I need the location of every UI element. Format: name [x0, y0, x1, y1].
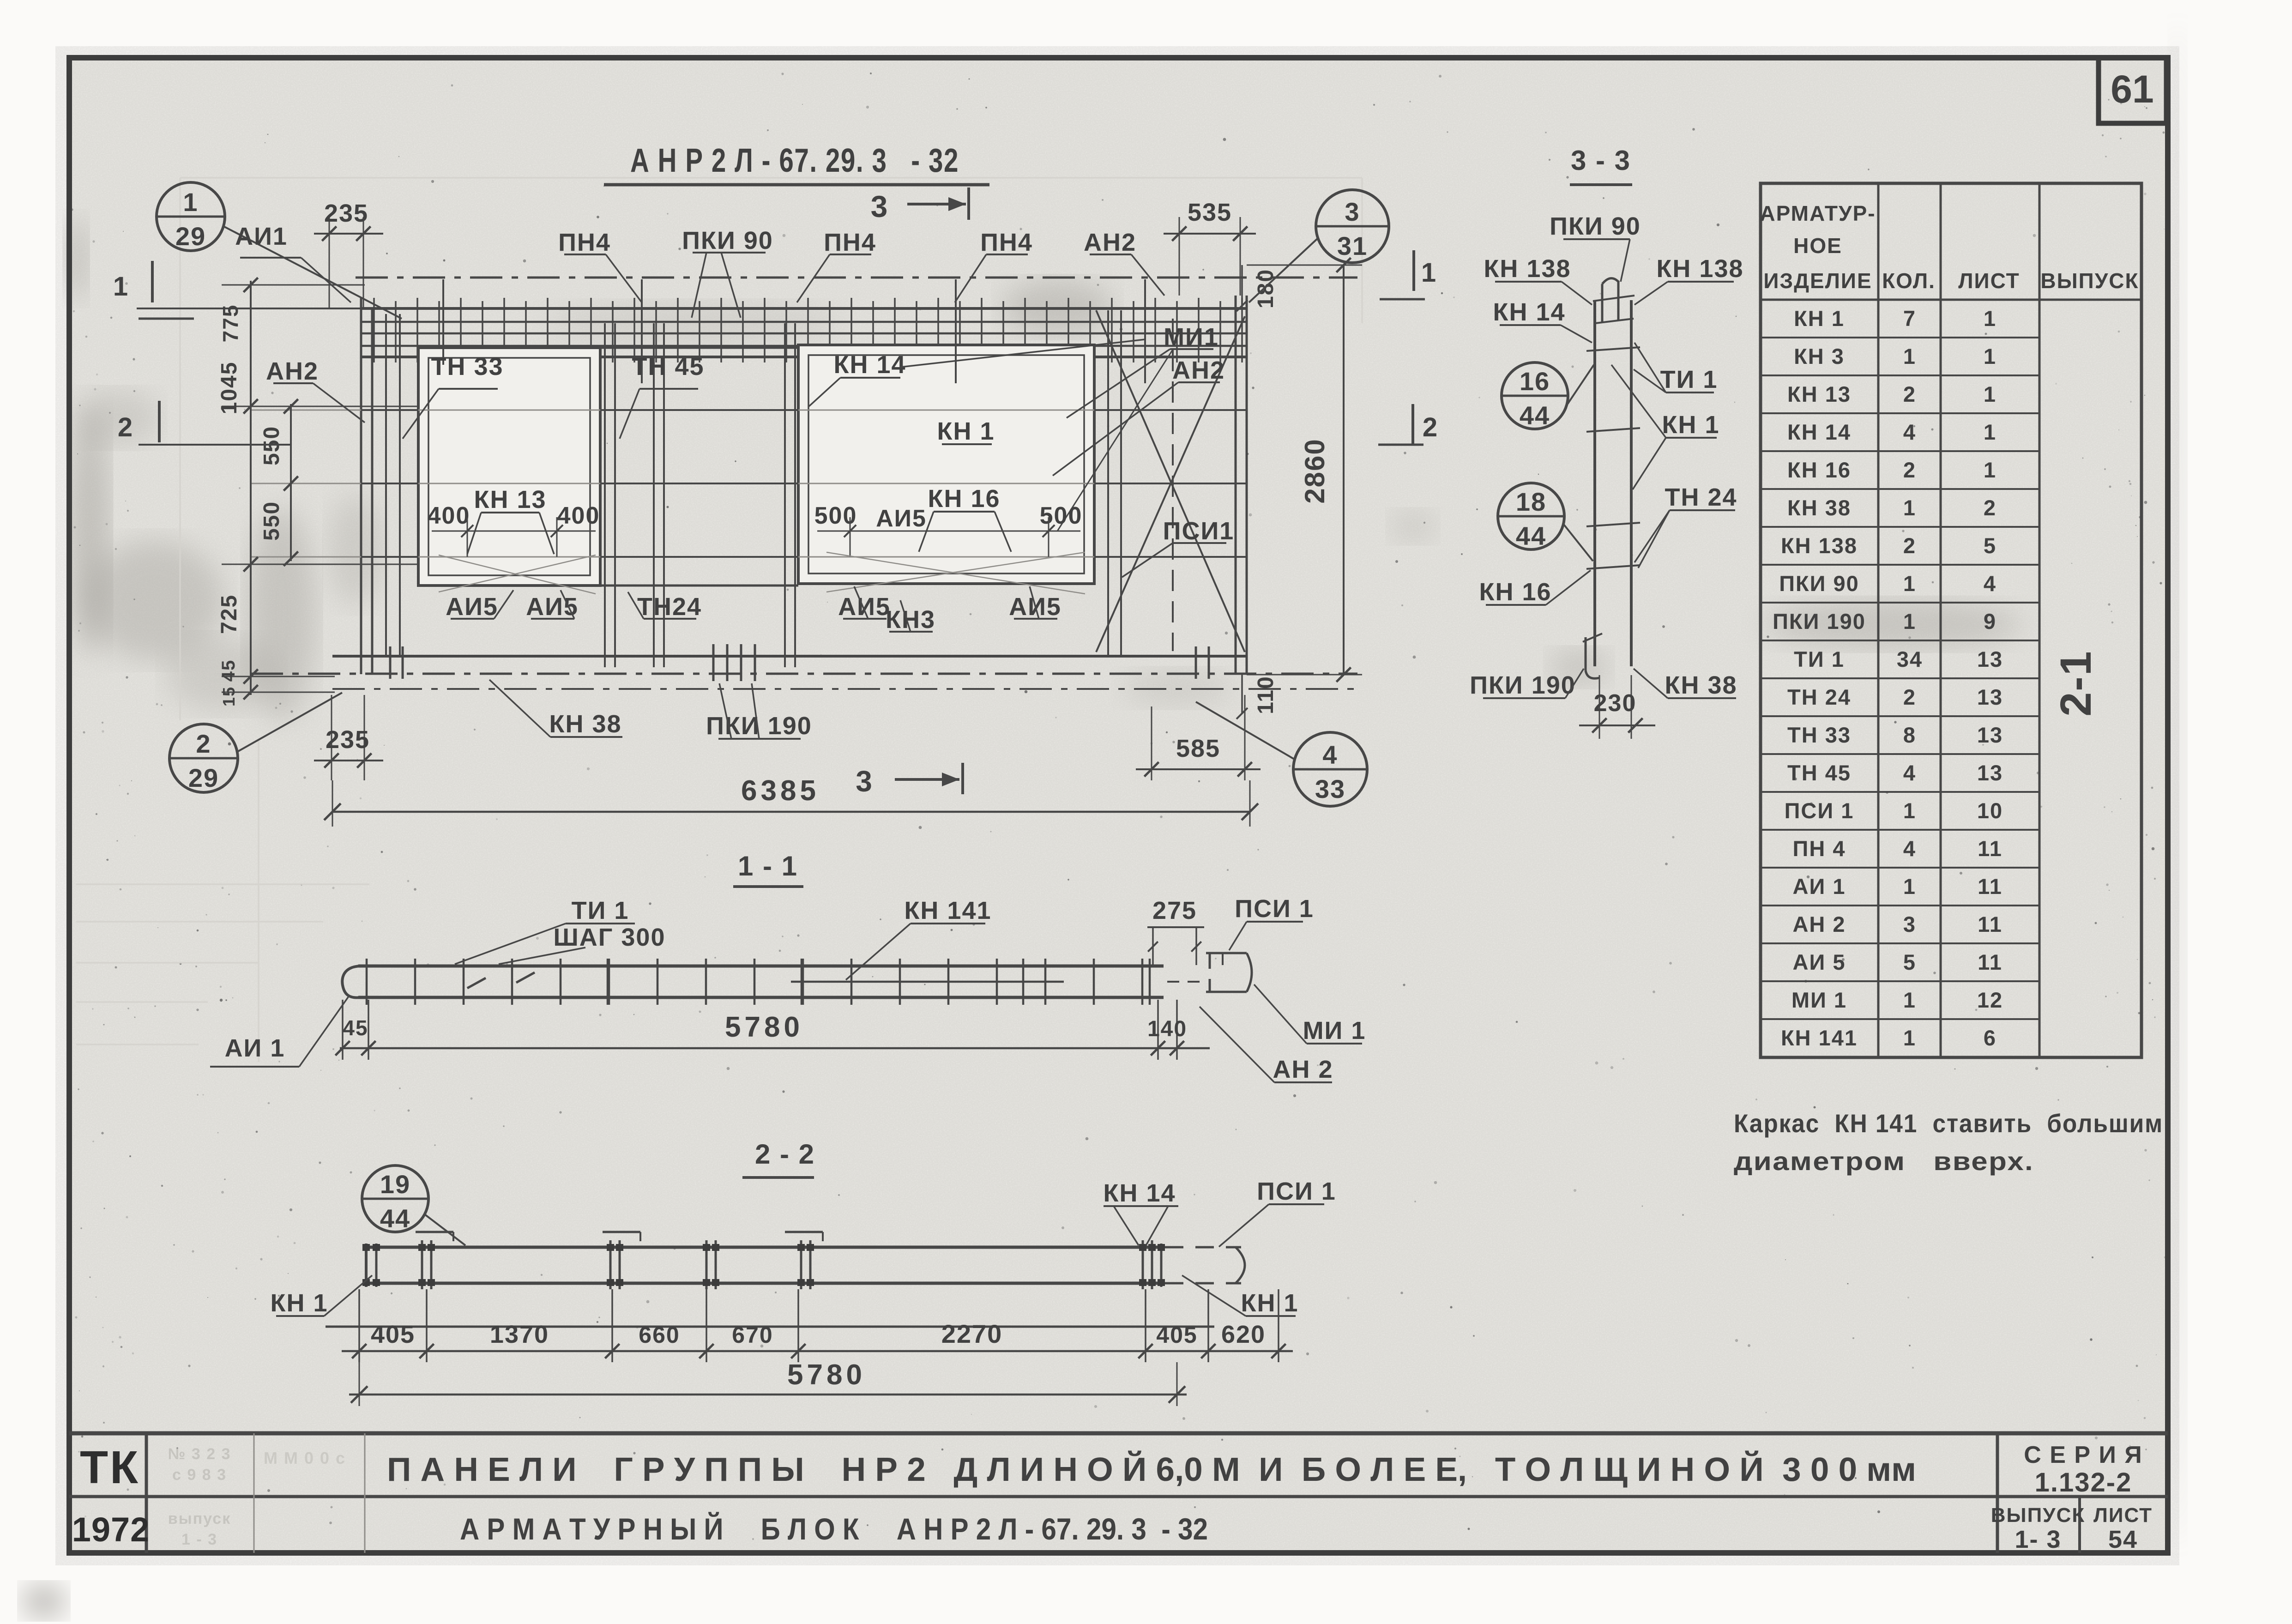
plan: panel bottom edge — [332, 655, 1247, 658]
svg-text:4: 4 — [1322, 740, 1338, 769]
svg-text:5780: 5780 — [787, 1359, 866, 1391]
svg-text:диаметром вверх.: диаметром вверх. — [1734, 1147, 2034, 1176]
svg-text:44: 44 — [1516, 521, 1546, 550]
svg-text:ЛИСТ: ЛИСТ — [1958, 269, 2020, 293]
list cell — [2093, 1504, 2153, 1553]
svg-text:1972: 1972 — [72, 1510, 150, 1549]
parts table frame — [1761, 183, 2141, 1057]
2-2 dimension chain 405/1370/660/670/2270/405/620 — [342, 1289, 1293, 1362]
svg-text:16: 16 — [1520, 367, 1550, 396]
plan: left window opening — [418, 348, 600, 586]
table row ПКИ 190 — [1761, 609, 2039, 640]
svg-text:29: 29 — [175, 222, 206, 251]
sheet number box — [2099, 58, 2166, 123]
svg-text:6: 6 — [1984, 1026, 1996, 1050]
svg-text:АИ5: АИ5 — [876, 505, 927, 532]
svg-text:1: 1 — [1903, 798, 1916, 823]
svg-text:ПН4: ПН4 — [824, 229, 876, 256]
svg-text:1: 1 — [1903, 988, 1916, 1012]
note Каркас КН141 — [1734, 1109, 2163, 1176]
svg-text:1: 1 — [1984, 306, 1996, 331]
svg-text:1 - 1: 1 - 1 — [738, 851, 798, 881]
dimension 180 (top right) — [1236, 265, 1278, 311]
thin cross lines under right opening — [826, 552, 1085, 594]
svg-text:с 9 8 3: с 9 8 3 — [172, 1466, 227, 1484]
plan: horizontal construction lines 550 spacing — [251, 410, 1247, 557]
3-3 label ПКИ90 (top) — [1550, 212, 1641, 282]
table row КН 16 — [1761, 458, 2039, 489]
svg-text:АИ5: АИ5 — [838, 593, 891, 621]
svg-text:МИ 1: МИ 1 — [1303, 1017, 1366, 1044]
svg-text:61: 61 — [2111, 67, 2153, 111]
plan: long vertical bars descending from mesh — [443, 279, 1145, 383]
label АН2 (top right) — [1084, 229, 1164, 296]
3-3 label КН14 — [1493, 298, 1592, 343]
table row ТН 24 — [1761, 685, 2039, 716]
svg-text:ТН 33: ТН 33 — [431, 353, 503, 380]
svg-text:405: 405 — [1156, 1322, 1197, 1348]
table row КН 3 — [1761, 344, 2039, 375]
svg-text:КН 16: КН 16 — [1479, 578, 1551, 606]
svg-text:2270: 2270 — [941, 1319, 1003, 1348]
dimension 235 (bottom left) — [314, 695, 383, 780]
svg-text:1370: 1370 — [490, 1321, 549, 1348]
label АИ1 (top left, at circle 1/29) — [235, 223, 351, 302]
svg-text:1: 1 — [183, 187, 198, 217]
svg-text:2: 2 — [1903, 382, 1916, 406]
svg-text:АН 2: АН 2 — [1273, 1056, 1333, 1083]
svg-text:1: 1 — [1984, 458, 1996, 482]
svg-text:ПН4: ПН4 — [558, 229, 611, 256]
2-2 label КН14 — [1103, 1179, 1178, 1245]
label ПСИ1 (right) — [1122, 517, 1234, 577]
svg-text:4: 4 — [1903, 420, 1916, 444]
2-2 beam top chord — [364, 1246, 1165, 1249]
table row КН 38 — [1761, 495, 2039, 527]
1-1 label АИ1 — [210, 996, 349, 1067]
svg-text:29: 29 — [188, 763, 219, 792]
svg-text:КН 138: КН 138 — [1781, 533, 1858, 558]
table header — [1760, 201, 2141, 300]
svg-text:ПКИ 90: ПКИ 90 — [682, 227, 773, 254]
svg-text:КН 13: КН 13 — [474, 486, 546, 513]
svg-text:9: 9 — [1984, 609, 1996, 634]
dimension 2860 (right vertical) — [1247, 258, 1362, 682]
plan: top mesh horizontal bars — [361, 322, 1247, 357]
label АН2 (left) — [266, 357, 365, 423]
3-3 label КН16 — [1479, 570, 1591, 606]
label КН3 — [886, 600, 935, 634]
svg-text:1: 1 — [1984, 344, 1996, 368]
table row АИ 1 — [1761, 874, 2039, 906]
table row ТН 33 — [1761, 723, 2039, 754]
svg-text:КН 14: КН 14 — [1103, 1179, 1176, 1207]
svg-text:№ 3 2 3: № 3 2 3 — [168, 1445, 231, 1463]
svg-text:1: 1 — [1984, 382, 1996, 406]
table row ПКИ 90 — [1761, 571, 2039, 603]
detail circle 4/33 — [1196, 702, 1367, 806]
svg-text:КН 38: КН 38 — [1787, 495, 1851, 520]
label ПКИ190 — [706, 683, 812, 740]
svg-text:А Р М А Т У Р Н Ы Й Б Л О: А Р М А Т У Р Н Ы Й Б Л О К А Н Р 2 Л - … — [460, 1511, 1208, 1546]
svg-text:2-1: 2-1 — [2051, 650, 2100, 716]
3-3 label ПКИ190 (bottom) — [1470, 669, 1584, 699]
svg-text:3: 3 — [871, 189, 889, 223]
table row АИ 5 — [1761, 950, 2039, 981]
3-3 label КН1 — [1611, 365, 1720, 489]
svg-text:18: 18 — [1516, 487, 1546, 516]
svg-text:10: 10 — [1977, 798, 2003, 823]
svg-text:КН 1: КН 1 — [1662, 411, 1720, 439]
svg-text:АИ 1: АИ 1 — [1793, 874, 1846, 899]
label КН1 (plan) — [937, 417, 995, 445]
1-1 dimension line 45/5780/140 — [335, 1000, 1210, 1060]
inner vertical dimension chain 550/550 — [259, 399, 298, 566]
svg-text:7: 7 — [1903, 306, 1916, 331]
section cut mark 3 (top) — [871, 187, 969, 223]
table row ПН 4 — [1761, 836, 2039, 868]
3-3 bottom hook detail — [1583, 634, 1602, 678]
dimension 235 (top left) — [314, 199, 383, 308]
label АИ5 #3 — [838, 586, 891, 621]
table row КН 14 — [1761, 420, 2039, 451]
svg-text:1: 1 — [1903, 495, 1916, 520]
2-2 label КН1 (left) — [271, 1275, 373, 1317]
svg-text:АН2: АН2 — [1084, 229, 1136, 256]
svg-text:45: 45 — [343, 1016, 368, 1040]
3-3 label КН138 (right) — [1635, 255, 1744, 305]
svg-text:ТН24: ТН24 — [637, 593, 702, 621]
1-1 beam rungs — [367, 959, 1150, 1005]
svg-text:13: 13 — [1977, 647, 2003, 671]
section 3-3 title — [1570, 145, 1632, 185]
1-1 label КН141 — [846, 897, 992, 980]
svg-text:ИЗДЕЛИЕ: ИЗДЕЛИЕ — [1763, 269, 1872, 293]
plan: right window opening — [798, 345, 1094, 584]
svg-text:400: 400 — [428, 502, 470, 529]
1-1 dimension 275 — [1147, 897, 1204, 965]
svg-text:КН 1: КН 1 — [271, 1289, 328, 1317]
label ТН24 — [628, 592, 702, 621]
svg-text:1: 1 — [1903, 1026, 1916, 1050]
svg-text:1- 3: 1- 3 — [2015, 1526, 2061, 1553]
svg-text:ТН 24: ТН 24 — [1787, 685, 1851, 709]
svg-text:АИ 1: АИ 1 — [225, 1034, 285, 1062]
svg-text:ЛИСТ: ЛИСТ — [2093, 1504, 2153, 1527]
dimension 535 (top right) — [1164, 199, 1256, 296]
label КН14 — [809, 339, 1145, 406]
svg-text:550: 550 — [259, 501, 284, 541]
2-2 beam vertical bars — [366, 1240, 1161, 1289]
svg-text:1 - 3: 1 - 3 — [181, 1531, 217, 1548]
svg-text:44: 44 — [380, 1204, 410, 1233]
svg-text:КН 1: КН 1 — [1794, 306, 1845, 331]
svg-text:ТН 45: ТН 45 — [632, 353, 704, 380]
detail circle 2/29 — [169, 693, 342, 792]
svg-text:54: 54 — [2108, 1526, 2138, 1553]
2-2 rebar section dots — [362, 1244, 1165, 1286]
table row КН 1 — [1761, 306, 2039, 338]
svg-text:31: 31 — [1337, 231, 1368, 260]
1-1 label МИ1 — [1254, 984, 1366, 1044]
2-2 label КН1 (right) — [1182, 1275, 1299, 1317]
table column lines — [1878, 183, 2039, 1057]
svg-text:АИ5: АИ5 — [446, 593, 498, 621]
dimension 585 (bottom right) — [1136, 695, 1261, 780]
3-3 dimension 230 — [1579, 675, 1655, 739]
label ПН4 #2 — [797, 229, 876, 302]
2-2 ground line — [326, 1326, 1214, 1328]
svg-text:1: 1 — [1421, 258, 1437, 288]
svg-text:ПН4: ПН4 — [980, 229, 1033, 256]
3-3 cross tie marks — [1586, 347, 1640, 569]
svg-text:КН 1: КН 1 — [1241, 1289, 1299, 1317]
label КН38 — [489, 680, 622, 738]
svg-text:3: 3 — [1345, 197, 1360, 226]
plan: panel top edge — [361, 307, 1247, 310]
svg-text:ПСИ 1: ПСИ 1 — [1257, 1177, 1336, 1205]
label АН2 (right side) — [1053, 356, 1225, 476]
svg-text:КН 16: КН 16 — [928, 485, 1000, 513]
label МИ1 (right) — [1067, 323, 1219, 418]
svg-text:2: 2 — [1423, 412, 1438, 442]
1-1 ПСИ1 channel piece — [1206, 953, 1252, 992]
svg-text:1: 1 — [1984, 420, 1996, 444]
svg-text:4: 4 — [1903, 761, 1916, 785]
title block top line — [69, 1431, 2168, 1436]
svg-text:585: 585 — [1176, 735, 1220, 762]
svg-text:2860: 2860 — [1299, 438, 1330, 503]
svg-text:выпуск: выпуск — [168, 1510, 231, 1527]
svg-text:1.132-2: 1.132-2 — [2035, 1467, 2132, 1497]
svg-text:775: 775 — [218, 304, 242, 343]
svg-text:КН 38: КН 38 — [1665, 671, 1737, 699]
detail circle 1/29 — [157, 182, 402, 319]
dimension 6385 (overall bottom) — [324, 775, 1258, 827]
3-3 circle 18/44 — [1498, 483, 1593, 561]
dimension 110 (bottom right) — [1236, 675, 1278, 719]
svg-text:КН 1: КН 1 — [937, 417, 995, 445]
plan: right end X bracing — [1057, 310, 1245, 652]
svg-text:НОЕ: НОЕ — [1793, 234, 1842, 258]
title block middle line — [69, 1495, 2168, 1498]
svg-text:КН 14: КН 14 — [1787, 420, 1851, 444]
svg-text:ПН 4: ПН 4 — [1793, 836, 1846, 861]
label АИ5 #2 — [526, 590, 579, 621]
svg-text:КН 3: КН 3 — [1794, 344, 1845, 368]
svg-text:АИ1: АИ1 — [235, 223, 288, 250]
svg-text:670: 670 — [732, 1322, 773, 1348]
svg-text:45: 45 — [218, 659, 239, 682]
svg-text:АИ5: АИ5 — [526, 593, 579, 621]
svg-text:ТК: ТК — [80, 1442, 140, 1493]
3-3 label КН38 (bottom right) — [1634, 669, 1737, 699]
plan: strip horizontal bar segments — [361, 410, 1247, 557]
svg-text:ТИ 1: ТИ 1 — [1794, 647, 1845, 671]
svg-text:620: 620 — [1221, 1321, 1266, 1348]
svg-text:34: 34 — [1897, 647, 1923, 671]
svg-text:КН 14: КН 14 — [1493, 298, 1565, 326]
svg-text:11: 11 — [1978, 950, 2002, 974]
3-3 label ТИ1 — [1634, 343, 1718, 393]
svg-text:КОЛ.: КОЛ. — [1882, 269, 1936, 293]
svg-text:1: 1 — [1903, 344, 1916, 368]
table row КН 141 — [1781, 1026, 1996, 1050]
svg-text:ТИ 1: ТИ 1 — [572, 897, 629, 924]
table row АН 2 — [1761, 912, 2039, 943]
2-2 beam bottom chord — [364, 1282, 1165, 1285]
svg-text:235: 235 — [326, 726, 370, 754]
svg-text:405: 405 — [371, 1321, 415, 1348]
svg-text:АРМАТУР-: АРМАТУР- — [1760, 201, 1876, 225]
table row МИ 1 — [1761, 988, 2039, 1019]
svg-text:11: 11 — [1978, 874, 2002, 899]
2-2 dimension 5780 — [349, 1359, 1187, 1406]
label ПН4 #3 — [955, 229, 1033, 302]
vypusk cell — [1991, 1504, 2085, 1553]
svg-text:4: 4 — [1903, 836, 1916, 861]
section marker 2 (left) — [118, 401, 291, 445]
2-2 circle 19/44 — [362, 1165, 465, 1245]
svg-text:2: 2 — [1903, 685, 1916, 709]
svg-text:1045: 1045 — [217, 362, 241, 415]
1-1 label АН2 — [1200, 1007, 1333, 1083]
svg-text:44: 44 — [1520, 401, 1550, 430]
plan: bottom dash-dot axis lines — [251, 674, 1357, 689]
svg-text:2: 2 — [118, 412, 133, 442]
plan: ПСИ1 channel vertical (right zone) — [1172, 319, 1174, 651]
2-2 flag marks above beam — [416, 1232, 823, 1241]
svg-text:ТН 45: ТН 45 — [1787, 761, 1851, 785]
svg-text:ТН 24: ТН 24 — [1665, 483, 1737, 511]
svg-text:1: 1 — [1903, 874, 1916, 899]
svg-text:2: 2 — [1984, 495, 1996, 520]
table row КН 138 — [1761, 533, 2039, 565]
svg-text:230: 230 — [1594, 690, 1637, 717]
plan: left extension line (section 1-1 cut line) — [137, 308, 361, 309]
plan: centre mullion vertical bars — [605, 323, 795, 667]
3-3 column vertical bars — [1595, 300, 1631, 666]
3-3 label КН138 (left) — [1484, 255, 1592, 305]
svg-text:13: 13 — [1977, 723, 2003, 747]
section marker 1 (left) — [113, 261, 194, 319]
detail circle 3/31 — [1249, 190, 1389, 302]
svg-text:13: 13 — [1977, 761, 2003, 785]
svg-text:МИ 1: МИ 1 — [1791, 988, 1847, 1012]
svg-text:1: 1 — [113, 272, 129, 302]
svg-text:3: 3 — [1903, 912, 1916, 936]
section 2-2 title — [742, 1139, 815, 1177]
svg-text:АН 2: АН 2 — [1792, 912, 1846, 936]
label ТН33 — [403, 353, 504, 439]
label АИ5 #4 — [1009, 586, 1062, 621]
1-1 label ТИ1 / ШАГ 300 — [455, 897, 665, 964]
label ПН4 #1 — [558, 229, 642, 302]
faded stamp cells — [168, 1445, 346, 1548]
svg-text:3: 3 — [856, 765, 873, 798]
svg-text:180: 180 — [1254, 269, 1278, 308]
svg-text:660: 660 — [639, 1322, 680, 1348]
svg-text:КН 13: КН 13 — [1787, 382, 1851, 406]
1-1 right dashed continuation — [1167, 981, 1200, 983]
svg-text:ШАГ 300: ШАГ 300 — [554, 924, 666, 951]
drawing title АНР2Л-67.29.3 -32 — [604, 142, 989, 185]
svg-text:725: 725 — [217, 594, 241, 634]
section 1-1 title — [733, 851, 803, 887]
svg-text:5: 5 — [1984, 533, 1996, 558]
svg-text:Каркас КН 141 ставить больш: Каркас КН 141 ставить большим — [1734, 1109, 2163, 1138]
table row ТИ 1 — [1761, 647, 2039, 678]
1-1 middle bar КН141 — [791, 981, 1064, 983]
svg-text:5780: 5780 — [725, 1011, 803, 1043]
title block verticals — [146, 1433, 2080, 1553]
svg-text:АИ 5: АИ 5 — [1793, 950, 1846, 974]
svg-text:235: 235 — [324, 199, 368, 227]
svg-text:400: 400 — [557, 502, 600, 529]
svg-text:2: 2 — [1903, 533, 1916, 558]
svg-text:КН 141: КН 141 — [904, 897, 991, 924]
svg-text:33: 33 — [1315, 774, 1345, 803]
svg-text:ПСИ 1: ПСИ 1 — [1785, 798, 1854, 823]
svg-text:12: 12 — [1977, 988, 2003, 1012]
plan: bottom band vertical bars — [390, 644, 1209, 681]
svg-text:ПКИ 90: ПКИ 90 — [1779, 571, 1859, 596]
plan: panel right edge (double line) — [1236, 296, 1247, 674]
svg-text:19: 19 — [380, 1170, 410, 1199]
section marker 1 (right) — [1380, 250, 1437, 299]
table row КН 13 — [1761, 382, 2039, 413]
svg-text:ПКИ 90: ПКИ 90 — [1550, 212, 1641, 240]
series cell — [2024, 1442, 2142, 1497]
label АИ5 #1 (below left opening) — [446, 590, 513, 621]
svg-text:КН 141: КН 141 — [1781, 1026, 1858, 1050]
svg-text:2: 2 — [1903, 458, 1916, 482]
svg-text:ПКИ 190: ПКИ 190 — [1470, 671, 1576, 699]
svg-text:ВЫПУСК: ВЫПУСК — [1991, 1504, 2085, 1527]
svg-text:110: 110 — [1254, 676, 1278, 714]
svg-text:4: 4 — [1984, 571, 1996, 596]
svg-text:КН 38: КН 38 — [549, 710, 621, 738]
1-1 left end hook — [342, 966, 360, 997]
label КН13 with 400/400 dims — [428, 486, 600, 557]
svg-text:ТИ 1: ТИ 1 — [1660, 366, 1718, 393]
svg-text:КН 14: КН 14 — [833, 351, 906, 379]
plan: panel left edge (double line) — [361, 298, 372, 674]
svg-text:13: 13 — [1977, 685, 2003, 709]
svg-text:ТН 33: ТН 33 — [1787, 723, 1851, 747]
svg-text:МИ1: МИ1 — [1164, 323, 1219, 351]
plan: side strip vertical bars — [386, 310, 1121, 656]
svg-text:ПСИ 1: ПСИ 1 — [1235, 895, 1314, 923]
svg-text:М М 0 0 с: М М 0 0 с — [264, 1449, 346, 1467]
svg-text:15: 15 — [219, 686, 238, 706]
svg-text:ПСИ1: ПСИ1 — [1163, 517, 1235, 545]
svg-text:2: 2 — [196, 729, 211, 758]
svg-text:С Е Р И Я: С Е Р И Я — [2024, 1442, 2142, 1468]
label ПКИ90 — [682, 227, 773, 318]
svg-text:П А Н Е Л И Г Р У П П Ы: П А Н Е Л И Г Р У П П Ы Н Р 2 Д Л И Н О … — [387, 1450, 1916, 1488]
svg-text:А Н Р 2 Л - 67. 29. 3 - 32: А Н Р 2 Л - 67. 29. 3 - 32 — [630, 142, 959, 179]
plan: mullion strip horizontal edges — [600, 348, 798, 586]
label КН16 with 500/500 dims and АИ5 — [814, 485, 1083, 557]
svg-text:11: 11 — [1978, 912, 2002, 936]
thin cross lines under left opening — [439, 555, 596, 594]
svg-text:1: 1 — [1903, 609, 1916, 634]
svg-text:140: 140 — [1147, 1017, 1187, 1041]
3-3 circle 16/44 — [1502, 362, 1594, 430]
svg-text:6385: 6385 — [741, 775, 820, 807]
3-3 label ТН24 — [1635, 483, 1737, 568]
